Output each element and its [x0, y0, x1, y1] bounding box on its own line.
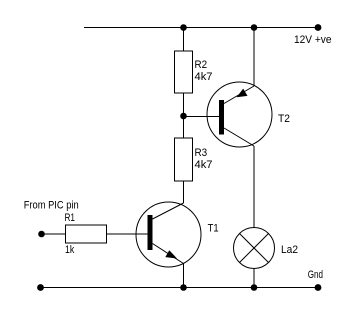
node 12V rail endpoint dot	[315, 24, 322, 31]
T1 emitter diagonal	[153, 244, 184, 264]
node ground right endpoint dot	[315, 284, 322, 291]
wire 12V top rail	[84, 27, 319, 29]
svg-text:4k7: 4k7	[195, 159, 213, 171]
wire T1 emitter to ground rail	[183, 264, 185, 288]
T2 emitter arrow (PNP, points to base)	[237, 89, 248, 98]
resistor R1	[65, 212, 107, 256]
transistor T1	[136, 202, 219, 267]
wire lamp to ground rail	[253, 269, 255, 288]
junction ground / T1 emitter	[180, 284, 187, 291]
svg-text:1k: 1k	[65, 244, 75, 256]
wire R1 to T1 base	[107, 233, 148, 235]
junction top rail / T2 emitter	[251, 24, 258, 31]
svg-text:T2: T2	[278, 113, 290, 125]
junction ground / lamp	[251, 284, 258, 291]
svg-text:T1: T1	[208, 222, 219, 234]
lamp La2	[234, 228, 299, 269]
svg-text:12V +ve: 12V +ve	[294, 34, 332, 46]
node ground left endpoint dot	[37, 284, 44, 291]
wire terminal to R1	[42, 233, 66, 235]
svg-text:4k7: 4k7	[195, 71, 213, 83]
transistor T2	[207, 28, 290, 148]
resistor R2	[175, 51, 213, 93]
svg-text:Gnd: Gnd	[308, 269, 323, 281]
resistor R3	[175, 138, 213, 181]
svg-text:From PIC pin: From PIC pin	[24, 200, 79, 212]
wire R2 to junction node A	[183, 93, 185, 138]
wire rail to R2	[183, 28, 185, 52]
T2 emitter diagonal	[224, 86, 254, 104]
wire T2 collector to lamp	[253, 146, 255, 228]
svg-text:R2: R2	[195, 59, 208, 71]
svg-text:La2: La2	[281, 244, 298, 256]
T1 emitter arrow (NPN, points out)	[165, 250, 177, 258]
junction top rail / R2	[180, 24, 187, 31]
T2 emitter wire from rail	[253, 28, 255, 87]
T1 collector diagonal	[153, 203, 184, 219]
svg-text:R3: R3	[195, 147, 208, 159]
wire ground rail	[41, 287, 319, 289]
wire node A to T2 base	[184, 116, 220, 118]
junction node A (R2/R3/T2 base)	[180, 113, 187, 120]
wire R3 to T1 collector	[183, 181, 185, 203]
node input terminal dot	[38, 231, 45, 238]
T2 collector diagonal	[224, 128, 254, 146]
svg-text:R1: R1	[65, 212, 76, 224]
